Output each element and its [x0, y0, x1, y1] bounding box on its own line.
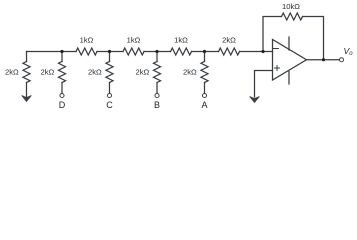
- node junction dot output-feedback: [322, 58, 325, 61]
- wire rail seg2: [97, 51, 123, 53]
- wire rail seg4: [192, 51, 219, 53]
- svg-text:1kΩ: 1kΩ: [80, 36, 94, 45]
- svg-text:Vo: Vo: [344, 46, 354, 57]
- node junction dot rail-branch3: [108, 50, 111, 53]
- resistor 1k R_1k_3: [171, 48, 192, 55]
- op-amp negative supply pin: [288, 72, 290, 85]
- svg-text:B: B: [154, 100, 160, 110]
- svg-text:2kΩ: 2kΩ: [183, 68, 197, 77]
- svg-text:A: A: [201, 100, 207, 110]
- node junction dot feedback tap: [261, 50, 264, 53]
- resistor 2k R_2k_3: [106, 62, 113, 83]
- svg-text:2kΩ: 2kΩ: [88, 68, 102, 77]
- wire branch1 to ground: [26, 83, 28, 98]
- wire top rail left segment: [27, 51, 77, 53]
- wire branch2 vertical top: [61, 52, 63, 62]
- svg-text:10kΩ: 10kΩ: [282, 2, 300, 11]
- wire branch5 to terminal A: [204, 83, 206, 94]
- svg-text:1kΩ: 1kΩ: [174, 36, 188, 45]
- resistor 1k R_1k_1: [76, 48, 97, 55]
- svg-text:2kΩ: 2kΩ: [135, 68, 149, 77]
- resistor 2k R_2k_2: [59, 62, 66, 83]
- svg-text:1kΩ: 1kΩ: [127, 36, 141, 45]
- wire branch5 vertical top: [204, 52, 206, 62]
- wire branch4 to terminal B: [156, 83, 158, 94]
- terminal C circle: [107, 93, 111, 97]
- wire rail seg3: [144, 51, 171, 53]
- wire noninverting input: [255, 71, 273, 98]
- resistor 10k feedback: [282, 13, 303, 20]
- terminal B circle: [155, 93, 159, 97]
- svg-text:D: D: [59, 100, 66, 110]
- op-amp positive supply pin: [288, 37, 290, 50]
- wire output: [307, 59, 340, 61]
- node junction dot rail-branch5: [203, 50, 206, 53]
- resistor 2k series R_2k_s: [219, 48, 240, 55]
- wire rail seg5 to op-amp inverting input: [240, 51, 273, 53]
- svg-text:2kΩ: 2kΩ: [222, 36, 236, 45]
- op-amp plus sign: [275, 66, 280, 71]
- resistor 2k R_2k_5: [201, 62, 208, 83]
- wire branch4 vertical top: [156, 52, 158, 62]
- wire branch3 to terminal C: [109, 83, 111, 94]
- svg-text:C: C: [106, 100, 113, 110]
- terminal D circle: [60, 93, 64, 97]
- wire feedback right vertical: [303, 17, 324, 60]
- svg-text:2kΩ: 2kΩ: [5, 68, 19, 77]
- op-amp minus sign: [274, 48, 279, 50]
- op-amp triangle: [273, 40, 307, 81]
- wire feedback left vertical: [263, 17, 282, 52]
- ground op-amp arrow: [250, 97, 260, 103]
- wire branch2 to terminal D: [61, 83, 63, 94]
- resistor 1k R_1k_2: [123, 48, 144, 55]
- resistor 2k R_2k_4: [154, 62, 161, 83]
- ground branch1 arrow: [22, 96, 32, 102]
- node junction dot rail-branch2: [60, 50, 63, 53]
- resistor 2k R_2k_1: [23, 62, 30, 83]
- terminal A circle: [202, 93, 206, 97]
- wire branch3 vertical top: [109, 52, 111, 62]
- terminal Vo circle: [339, 58, 343, 62]
- node junction dot rail-branch4: [155, 50, 158, 53]
- svg-text:2kΩ: 2kΩ: [40, 68, 54, 77]
- wire branch1 vertical top: [26, 52, 28, 62]
